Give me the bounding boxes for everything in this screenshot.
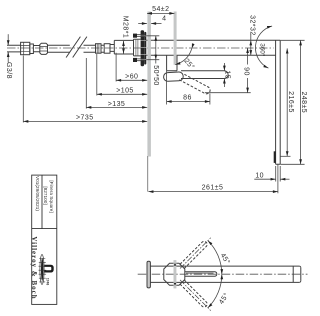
svg-text:15: 15 (224, 70, 231, 79)
svg-text:90: 90 (243, 67, 250, 76)
svg-text:4: 4 (162, 16, 166, 23)
svg-text:>105: >105 (116, 88, 134, 95)
svg-text:[Finera Square]: [Finera Square] (49, 180, 54, 212)
svg-text:V01(29/05/2021): V01(29/05/2021) (35, 176, 40, 211)
svg-text:86: 86 (183, 95, 192, 102)
svg-text:10: 10 (255, 173, 264, 180)
svg-text:54±2: 54±2 (152, 6, 169, 13)
svg-text:360°: 360° (259, 43, 267, 57)
svg-text:32*32: 32*32 (248, 15, 255, 36)
svg-text:G3/8: G3/8 (5, 62, 12, 79)
svg-text:1748: 1748 (45, 278, 49, 286)
svg-text:216±5: 216±5 (287, 91, 294, 113)
svg-text:>60: >60 (125, 74, 138, 81)
svg-text:>735: >735 (76, 115, 94, 122)
svg-text:50*50: 50*50 (152, 65, 159, 86)
svg-text:Villeroy & Boch: Villeroy & Boch (30, 236, 37, 299)
svg-text:M28*1: M28*1 (122, 16, 129, 38)
svg-text:248±5: 248±5 (300, 91, 307, 113)
svg-text:[827100]: [827100] (43, 186, 48, 204)
svg-text:>135: >135 (108, 101, 126, 108)
svg-text:261±5: 261±5 (202, 185, 224, 192)
